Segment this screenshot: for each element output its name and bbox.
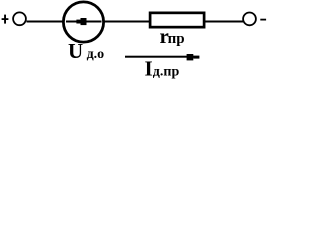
svg-text:д.о: д.о <box>87 47 105 62</box>
svg-text:пр: пр <box>168 31 185 47</box>
svg-text:д.пр: д.пр <box>153 65 180 79</box>
svg-text:U: U <box>68 39 83 63</box>
svg-text:I: I <box>145 57 153 80</box>
